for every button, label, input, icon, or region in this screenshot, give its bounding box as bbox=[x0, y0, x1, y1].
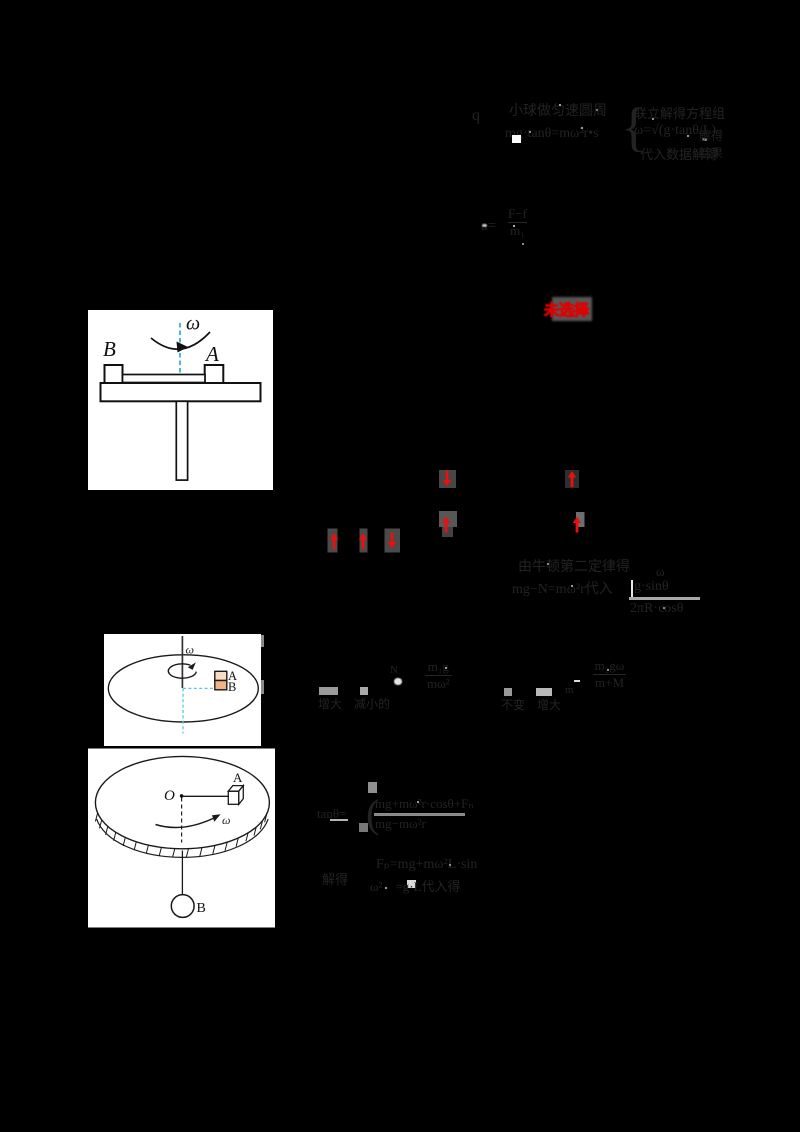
block B bright crescent bbox=[482, 224, 488, 228]
block D right denominator bbox=[630, 601, 683, 617]
block E white dash bbox=[574, 680, 581, 683]
gray highlight behind red caption bbox=[552, 297, 592, 321]
rotation arc around axis bbox=[168, 663, 196, 677]
rotation arrow on disc bbox=[156, 818, 216, 828]
block E gray square 3 bbox=[504, 688, 512, 696]
stem bbox=[176, 401, 187, 480]
block F bracket bbox=[366, 790, 379, 837]
block B bbox=[105, 365, 123, 383]
big ellipse (disc) bbox=[108, 654, 258, 721]
block D right numerator bbox=[634, 579, 669, 595]
gray smudge behind arrow a6 bbox=[360, 529, 368, 553]
block E faint text below squares bbox=[501, 696, 561, 713]
red arrow a3 up bbox=[442, 517, 450, 533]
disc top ellipse bbox=[95, 756, 269, 848]
gray smudge behind arrow a7 bbox=[385, 529, 401, 553]
block A margin dot bbox=[702, 138, 707, 141]
block A white square bbox=[512, 135, 521, 144]
dashed rotation axis (cyan) bbox=[179, 323, 181, 384]
block G left bbox=[322, 869, 348, 888]
red caption text bbox=[544, 299, 589, 320]
gray smudge behind arrow a2 bbox=[565, 470, 579, 488]
red arrow a2 up bbox=[568, 471, 576, 487]
block E faint near dash bbox=[565, 684, 574, 696]
block B fraction bbox=[508, 206, 527, 239]
disc rim lower arc bbox=[97, 819, 268, 857]
block E left gray square 2 bbox=[360, 687, 368, 695]
gray smudges behind arrow a3 bbox=[439, 511, 457, 527]
block F left text bbox=[317, 806, 346, 822]
block B (bottom, darker) bbox=[215, 680, 227, 689]
gray smudge behind arrow a1 bbox=[439, 470, 456, 488]
block G line2 bbox=[370, 876, 461, 895]
rotation arrowhead bbox=[188, 662, 196, 670]
block A line2 bbox=[505, 126, 599, 142]
block D vertical bright bar bbox=[631, 580, 633, 600]
block F gray square top bbox=[368, 782, 377, 793]
block D right omega bbox=[656, 564, 665, 580]
block E faint above crescent bbox=[390, 664, 398, 676]
block F gray square left bbox=[359, 823, 368, 832]
block D bright fraction bar bbox=[629, 597, 700, 600]
figure F1: turntable with blocks A and B (side view) bbox=[88, 310, 273, 490]
red arrow a4 up bbox=[573, 517, 581, 533]
block A margin faint bbox=[699, 127, 723, 161]
center dot bbox=[180, 794, 184, 798]
red arrow a7 down bbox=[388, 533, 396, 549]
block A line1 bbox=[509, 100, 607, 120]
block E gray square 4 bbox=[536, 688, 552, 696]
axis line bbox=[181, 636, 183, 688]
block F left bright bar bbox=[330, 819, 348, 821]
block A (top, light) bbox=[215, 671, 227, 680]
block E right fraction bbox=[593, 658, 626, 691]
red arrow a1 down bbox=[443, 471, 451, 487]
scrollbar marks bbox=[261, 635, 264, 647]
block D line1 bbox=[518, 556, 630, 576]
gray smudge behind arrow a4 bbox=[576, 512, 585, 527]
block A right line1 bbox=[634, 103, 725, 122]
figure F2: turntable top view with stacked blocks A/B bbox=[104, 634, 264, 746]
block E left faint text below bbox=[318, 695, 390, 712]
cube A side face bbox=[239, 786, 244, 805]
block D line2 bbox=[512, 578, 613, 598]
arrowhead bbox=[177, 342, 189, 353]
dashed axis below (cyan) bbox=[182, 688, 184, 733]
block F bright fraction bar bbox=[374, 813, 465, 815]
red arrow a5 up bbox=[330, 533, 338, 549]
rim hatch ticks bbox=[95, 813, 266, 857]
red arrow a6 up bbox=[359, 533, 367, 549]
dashed axis inside disc bbox=[181, 798, 183, 843]
block E center fraction bbox=[425, 659, 452, 692]
block F denominator bbox=[375, 816, 426, 832]
block B a= bbox=[481, 218, 496, 235]
cube A front face bbox=[228, 791, 239, 804]
block G white square bbox=[407, 880, 416, 888]
string below disc bbox=[181, 851, 183, 895]
block A bbox=[205, 365, 224, 383]
block A right line3 bbox=[640, 144, 718, 163]
ball B bbox=[171, 895, 194, 918]
block A right line2 bbox=[634, 123, 716, 139]
rotation arc arrow bbox=[151, 332, 210, 349]
rotation arrowhead bbox=[212, 814, 221, 822]
dashed radius (cyan) bbox=[183, 687, 215, 689]
gray smudge behind arrow a5 bbox=[328, 529, 338, 553]
connecting bar bbox=[123, 375, 206, 383]
block E left gray square 1 bbox=[319, 687, 338, 695]
block A right brace bbox=[621, 96, 647, 158]
block A q label bbox=[472, 107, 480, 125]
radius line to cube bbox=[183, 795, 229, 797]
block F numerator bbox=[375, 796, 473, 812]
block E bright crescent bbox=[394, 678, 402, 686]
cube A top face bbox=[228, 786, 243, 792]
speckle dots bbox=[559, 104, 561, 106]
platform bbox=[101, 383, 261, 401]
figure F3: disc with cube A and hanging ball B bbox=[88, 746, 275, 928]
block G line1 bbox=[376, 856, 477, 873]
